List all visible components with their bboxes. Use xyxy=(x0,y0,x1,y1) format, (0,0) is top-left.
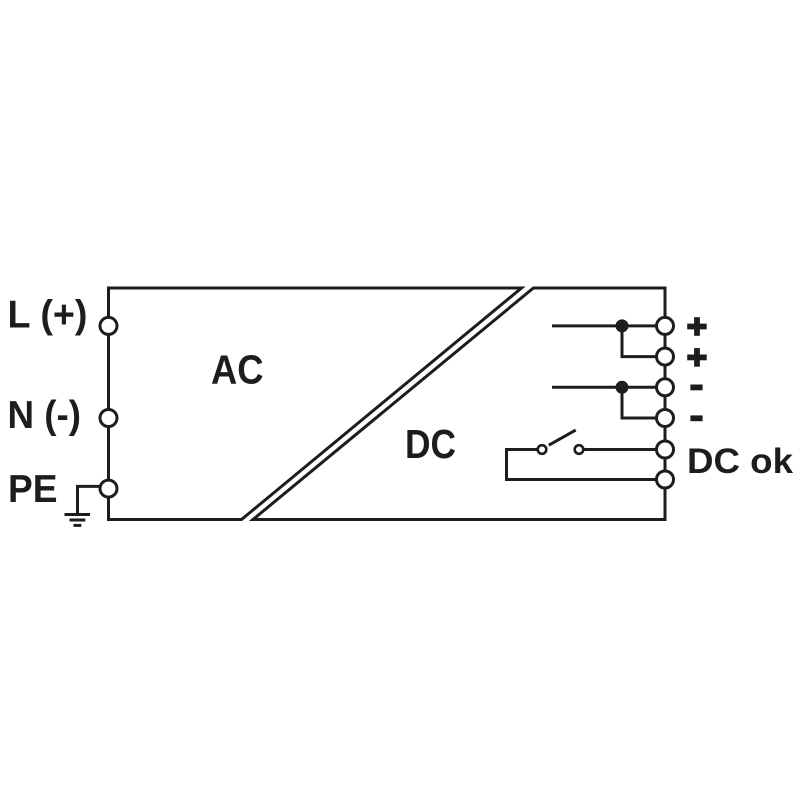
wire relay contact to DC ok terminal 5 xyxy=(579,448,665,451)
label - terminal 3 xyxy=(690,385,702,391)
svg-text:N (-): N (-) xyxy=(8,394,82,437)
terminal PE input xyxy=(100,480,117,497)
terminal output + 1 xyxy=(657,317,674,334)
terminal DC ok 5 xyxy=(657,441,674,458)
wire bracket from - node down to terminal 4 xyxy=(622,387,665,418)
power supply DC section outline xyxy=(253,288,665,520)
svg-text:DC ok: DC ok xyxy=(687,442,794,481)
terminal DC ok 6 xyxy=(657,471,674,488)
power supply AC section outline xyxy=(109,288,522,520)
svg-text:DC: DC xyxy=(405,421,456,467)
terminal N input xyxy=(100,410,117,427)
junction node + xyxy=(616,319,629,332)
wire output + to terminal 1 xyxy=(552,324,665,327)
relay switch contact S1 xyxy=(538,430,584,454)
terminal L input xyxy=(100,317,117,334)
svg-text:AC: AC xyxy=(211,347,264,393)
terminal output - 3 xyxy=(657,379,674,396)
ground symbol at PE xyxy=(65,486,101,525)
label + terminal 1 xyxy=(687,317,707,336)
label - terminal 4 xyxy=(690,415,702,421)
terminal output - 4 xyxy=(657,410,674,427)
wire output - to terminal 3 xyxy=(552,386,665,389)
label + terminal 2 xyxy=(687,348,707,367)
svg-text:L (+): L (+) xyxy=(8,293,88,336)
svg-text:PE: PE xyxy=(8,468,58,511)
wire relay contact left side xyxy=(507,450,666,480)
junction node - xyxy=(616,381,629,394)
wire bracket from + node down to terminal 2 xyxy=(622,326,665,357)
terminal output + 2 xyxy=(657,348,674,365)
